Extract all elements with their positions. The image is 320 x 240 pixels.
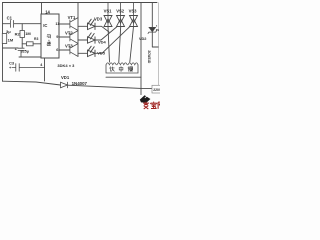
svg-text:R2: R2 xyxy=(15,31,21,36)
transistor VT1 xyxy=(70,18,78,31)
LED VD3 xyxy=(87,19,95,29)
wire to LED VD4 xyxy=(78,39,88,41)
svg-text:220V: 220V xyxy=(153,88,160,92)
LED VD4 xyxy=(87,33,95,43)
wire R2 node to R3 xyxy=(22,43,26,45)
wire LED VD4 to VS2 gate xyxy=(95,27,117,40)
svg-text:VD4: VD4 xyxy=(98,40,107,45)
resistor R1 xyxy=(2,34,6,44)
wire to LED VD5 xyxy=(78,52,88,54)
wire top rail xyxy=(3,2,158,4)
wire left rail xyxy=(2,3,4,82)
svg-text:VS1: VS1 xyxy=(104,9,113,14)
wire right border xyxy=(157,3,159,93)
svg-text:VT1: VT1 xyxy=(68,15,76,20)
capacitor C1 xyxy=(3,20,42,27)
LED VD5 xyxy=(87,46,95,56)
transistor VT3 xyxy=(70,44,78,57)
triac VS1 xyxy=(104,3,112,27)
wire LED VD3 to VS1 gate xyxy=(95,26,109,32)
wire bottom rail left segment xyxy=(3,81,61,85)
svg-text:325μ: 325μ xyxy=(21,50,29,54)
IC vertical function label char 1 xyxy=(47,35,50,38)
wire to LED VD3 xyxy=(78,25,88,27)
zener VD2 lead from top rail xyxy=(151,3,153,28)
capacitor C2 xyxy=(18,48,24,57)
motor speed label slow xyxy=(128,67,133,72)
watermark red char 1 xyxy=(143,102,149,109)
svg-text:11: 11 xyxy=(55,22,59,26)
svg-text:R3: R3 xyxy=(34,37,38,41)
svg-text:VD2: VD2 xyxy=(139,36,147,41)
resistor R2 xyxy=(20,31,24,38)
svg-text:VS3: VS3 xyxy=(129,9,138,14)
IC vertical function label dash xyxy=(48,39,49,41)
wire VS2 to motor tap 2 xyxy=(119,27,121,63)
wire LED VD5 to VS3 gate xyxy=(95,27,129,53)
resistor R2 leads xyxy=(21,24,23,48)
svg-text:VT3: VT3 xyxy=(65,43,73,48)
wire zener to right rail xyxy=(152,32,158,47)
wire mains vertical xyxy=(140,3,142,95)
svg-text:IC: IC xyxy=(43,23,47,28)
svg-text:4: 4 xyxy=(40,63,43,67)
wire R3 to IC xyxy=(33,43,41,45)
wire node row C xyxy=(3,47,19,49)
watermark red char 3 xyxy=(158,102,163,109)
svg-text:+: + xyxy=(15,46,18,51)
transistor VT2 xyxy=(70,31,78,44)
svg-text:VD1: VD1 xyxy=(61,75,70,80)
motor speed label mid xyxy=(119,66,123,71)
wire bottom rail right segment xyxy=(68,85,153,88)
watermark red char 2 xyxy=(151,102,157,109)
wire IC pin 4 lead xyxy=(44,58,46,81)
wire motor common bottom xyxy=(106,76,141,78)
svg-text:1M: 1M xyxy=(25,31,31,36)
diode VD1 xyxy=(61,82,68,88)
triac VS2 xyxy=(117,3,125,27)
svg-text:1N4007: 1N4007 xyxy=(72,81,88,86)
svg-text:14: 14 xyxy=(45,10,50,15)
capacitor C3 xyxy=(12,64,45,72)
wire IC pin 6 to VT3 base xyxy=(59,49,70,51)
IC U1 box xyxy=(41,14,59,58)
svg-text:9: 9 xyxy=(56,35,58,39)
svg-text:zs: zs xyxy=(156,28,160,32)
svg-text:VD5: VD5 xyxy=(97,50,106,55)
mains label box xyxy=(152,85,164,93)
wire collector rail xyxy=(77,3,79,57)
zener diode VD2 xyxy=(148,27,157,33)
svg-text:VT2: VT2 xyxy=(65,30,73,35)
wire IC pin 9 to VT2 base xyxy=(59,36,70,38)
svg-text:VS2: VS2 xyxy=(116,9,125,14)
wire VS3 to motor tap 3 xyxy=(130,27,134,63)
wire row E to IC xyxy=(19,56,41,58)
svg-text:C1: C1 xyxy=(7,16,13,21)
svg-text:2CW21D: 2CW21D xyxy=(147,50,151,63)
resistor R3 xyxy=(27,42,34,46)
wire VS1 to motor tap 1 xyxy=(108,27,110,63)
svg-text:3DK4 × 3: 3DK4 × 3 xyxy=(57,63,75,68)
svg-text:3μ: 3μ xyxy=(6,29,11,34)
wire IC pin 14 lead xyxy=(41,3,43,15)
svg-text:6: 6 xyxy=(56,48,58,52)
IC vertical function label char 2 xyxy=(47,42,51,46)
motor winding box xyxy=(106,63,138,73)
svg-text:1M: 1M xyxy=(8,38,14,43)
triac VS3 xyxy=(130,3,138,27)
motor speed label fast xyxy=(110,67,115,72)
svg-text:VD3: VD3 xyxy=(94,17,103,22)
wire IC pin 11 to VT1 base xyxy=(59,23,70,25)
AC plug symbol xyxy=(140,95,151,103)
